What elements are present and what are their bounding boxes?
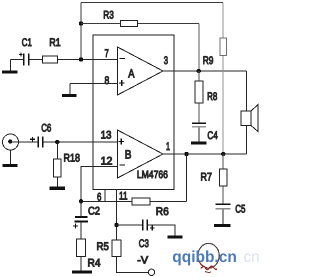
op-amp U1B triangle: [118, 130, 164, 178]
wire pin8: [70, 83, 118, 85]
node pin7 input junction: [79, 57, 83, 61]
node C2 pin12 junction: [79, 199, 83, 203]
resistor R5: [112, 240, 121, 257]
svg-text:8: 8: [105, 75, 110, 87]
wire R3 right vertical down to pin3 node: [198, 24, 200, 72]
svg-text:1: 1: [166, 141, 170, 153]
svg-text:C2: C2: [88, 206, 100, 218]
wire feedback vertical from pin1 to R6: [186, 154, 188, 201]
svg-text:12: 12: [101, 155, 113, 167]
node R3 tap junction: [79, 21, 83, 25]
svg-text:13: 13: [101, 130, 112, 142]
svg-text:R5: R5: [97, 241, 109, 253]
svg-text:cn: cn: [244, 249, 260, 266]
capacitor C4: [192, 122, 206, 124]
resistor R1: [43, 56, 58, 63]
capacitor C5: [215, 203, 230, 205]
wire C3 left: [117, 224, 143, 226]
resistor R7: [219, 169, 227, 186]
resistor R3: [120, 21, 137, 27]
wire pin12 feedback: [81, 167, 118, 202]
svg-text:C6: C6: [41, 123, 51, 135]
plus sign op-amp A: [119, 80, 125, 86]
stamp circle watermark: [198, 243, 219, 272]
capacitor C6: [38, 136, 43, 147]
resistor R9: [220, 38, 227, 56]
node C6 R18 junction: [55, 140, 59, 144]
svg-text:LM4766: LM4766: [137, 169, 168, 181]
svg-text:C5: C5: [235, 204, 245, 216]
IC boundary box LM4766: [93, 35, 174, 190]
svg-text:7: 7: [105, 48, 109, 60]
ground below C5: [222, 210, 224, 225]
wire pin11 supply line: [116, 190, 118, 241]
wire top feedback rail: [81, 2, 223, 4]
wire R8 branch: [198, 71, 200, 122]
ground below C4: [198, 127, 200, 141]
svg-text:R9: R9: [203, 55, 214, 67]
svg-text:R7: R7: [201, 172, 212, 184]
wire R7 branch: [222, 154, 224, 204]
svg-text:R1: R1: [49, 37, 61, 49]
resistor R8: [195, 81, 203, 103]
resistor R18: [56, 142, 58, 159]
wire vertical from pin7 node up to top rail: [80, 3, 82, 60]
resistor R6: [132, 198, 150, 205]
connector J2 input circle: [3, 134, 19, 150]
wire pin1 output line: [163, 153, 247, 155]
wire C6 to pin13: [43, 141, 117, 143]
wire C2 to R4: [80, 222, 82, 239]
ground at C3: [168, 236, 183, 239]
capacitor C2: [80, 201, 82, 216]
wire connector to C6: [11, 141, 38, 143]
svg-text:qqibb.cn: qqibb.cn: [172, 249, 237, 266]
svg-text:3: 3: [164, 55, 168, 67]
svg-text:-V: -V: [137, 255, 148, 267]
svg-text:R4: R4: [88, 258, 101, 270]
wire C1 input left segment: [10, 59, 23, 61]
resistor R4: [77, 239, 86, 257]
wire R1 to pin7: [58, 59, 118, 61]
minus sign op-amp B: [120, 164, 125, 166]
capacitor C3: [143, 219, 148, 230]
wire R3 branch horizontal: [81, 23, 199, 25]
svg-text:B: B: [125, 148, 132, 162]
plus sign op-amp B: [118, 139, 124, 145]
svg-text:6: 6: [97, 192, 101, 204]
ground below R18: [56, 177, 58, 187]
svg-text:R8: R8: [207, 91, 217, 103]
svg-text:R3: R3: [103, 10, 114, 22]
svg-text:C3: C3: [139, 238, 149, 250]
svg-text:A: A: [128, 67, 134, 81]
minus sign op-amp A: [120, 57, 125, 59]
node pin1 R9 R7 junction: [221, 152, 225, 156]
svg-text:11: 11: [119, 190, 128, 202]
wire R5 to -V terminal: [117, 257, 149, 273]
svg-text:C4: C4: [207, 130, 217, 142]
ground below connector: [10, 150, 12, 164]
svg-text:C1: C1: [22, 37, 32, 49]
svg-text:R18: R18: [64, 153, 81, 165]
wire bottom feedback line: [81, 200, 187, 202]
wire C1 to R1: [29, 59, 42, 61]
capacitor C1: [24, 54, 29, 66]
wire pin6 stub: [104, 190, 106, 202]
svg-text:R6: R6: [156, 206, 169, 218]
node pin11 C3 junction: [114, 223, 118, 227]
speaker LS1: [246, 71, 248, 111]
ground below R4: [80, 257, 82, 271]
ground at C1 input: [9, 60, 11, 71]
node pin3 output junction: [197, 69, 201, 73]
op-amp U1A triangle: [118, 47, 164, 95]
terminal -V: [148, 269, 154, 275]
wire pin3 output line: [163, 70, 247, 72]
ground at pin8: [69, 84, 71, 94]
wire C3 right to ground: [148, 225, 175, 236]
wire R9 branch vertical: [222, 3, 224, 155]
node pin1 feedback junction: [184, 152, 188, 156]
